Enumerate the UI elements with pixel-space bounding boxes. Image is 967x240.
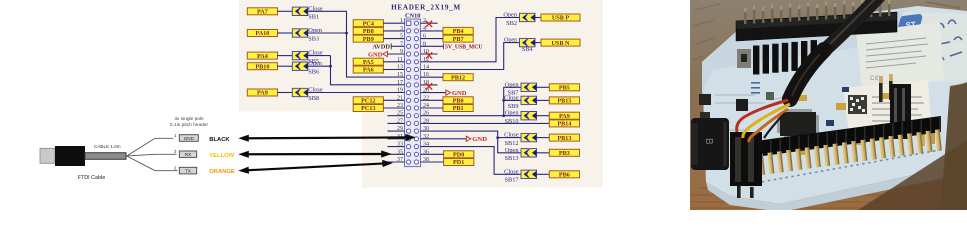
wire PA4 to SB5 [277,55,292,57]
svg-text:PB10: PB10 [255,63,269,70]
svg-text:0.1in pitch header: 0.1in pitch header [170,122,209,128]
node USB N [541,39,580,47]
node PA6 pin 13 [353,66,383,74]
node PC12 pin 21 [353,97,383,105]
solder bridge SB4 [520,38,536,46]
photo wood grain streaks [690,2,967,208]
FTDI wire to TX pin [127,156,178,171]
svg-text:27: 27 [397,118,403,124]
connector CN10 body [405,19,421,167]
svg-text:PA9: PA9 [559,113,570,120]
FTDI usb plug body [55,146,85,166]
node USB P [541,14,580,22]
wire SB10 to PA9 [537,115,550,117]
node PB15 [549,97,579,105]
svg-text:SB10: SB10 [505,118,519,125]
svg-text:PA9: PA9 [257,90,268,97]
svg-text:CABLE 1.0m: CABLE 1.0m [94,144,121,149]
svg-text:SB13: SB13 [505,155,519,162]
svg-text:35: 35 [397,149,403,155]
svg-text:HEADER_2X19_M: HEADER_2X19_M [391,4,461,12]
svg-text:PB1: PB1 [453,105,464,112]
wire SB13 to PB3 [537,152,550,154]
svg-text:PB7: PB7 [453,36,464,43]
svg-text:PA5: PA5 [363,59,374,66]
wire SB5 to bus [308,55,331,57]
svg-text:PB5: PB5 [559,85,570,92]
node PA7 [247,8,277,16]
svg-text:5V_USB_MCU: 5V_USB_MCU [445,45,483,51]
svg-text:3x single pole: 3x single pole [174,116,204,122]
node PB1 pin 24 [443,105,473,113]
label SB8 Close [308,87,323,102]
wire SB4 to USB N [535,42,541,44]
no-connect X pin 2 [426,21,432,27]
stub pin 10 [421,53,438,55]
svg-text:Close: Close [504,132,519,139]
svg-text:PA6: PA6 [363,67,374,74]
stub pin 33 [388,146,405,148]
wire PA7 to SB1 [277,10,292,12]
svg-text:SB1: SB1 [308,14,319,21]
wire SB8 to pin 19 [308,92,405,94]
node PA10 [247,30,277,38]
node PB12 pin 16 [443,74,473,82]
ground label pin 20 [446,90,467,97]
wire pin 32 stub [421,138,466,140]
photo wood table background [690,0,967,210]
stub pin 37 [388,161,405,163]
photo buttons [699,94,711,105]
label SB2 Open [503,12,517,27]
photo wood right dark edge [940,83,967,210]
wire pin 4 to PB4 [421,30,444,32]
solder bridge SB17 [521,170,537,178]
connector CN10 pin pads [406,21,418,164]
wire SB7 to PB5 [537,86,550,88]
svg-text:PB3: PB3 [559,150,570,157]
svg-text:29: 29 [397,126,403,132]
label SB7 Open [505,81,519,96]
FTDI RX connector [179,151,196,157]
solder bridge SB7 [521,83,537,91]
svg-text:TX: TX [185,169,191,174]
wire SB9 branch [504,99,521,101]
node PB9 pin 5 [353,35,383,43]
svg-text:PD0: PD0 [453,152,464,159]
node PB5 [549,84,579,92]
solder bridge SB8 [292,88,308,96]
svg-text:PA10: PA10 [255,30,269,37]
wire SB12 to PB13 [537,137,550,139]
wire pin 30 to SB12/SB13 bus [421,131,522,153]
svg-text:11: 11 [397,57,403,63]
photo standing pins pair [879,74,893,102]
node PC4 pin 1 [353,20,383,28]
svg-text:PB9: PB9 [363,36,374,43]
svg-text:PC13: PC13 [361,105,375,112]
wire pin 20 stub [421,92,446,94]
photo silkscreen text marks [751,82,760,94]
photo swd header [890,84,911,139]
photo colored wires [737,100,790,142]
wire pin 34 to SB17 [421,147,522,175]
svg-text:5: 5 [400,34,403,40]
node PD0 pin 36 [444,151,474,159]
photo top header pins [744,0,890,24]
svg-text:33: 33 [397,142,403,148]
wire GND to pin 9 [387,53,404,55]
label SB13 Open [505,147,520,162]
wire PB8 to pin 3 [383,30,404,32]
wire bus SB1/SB3 to pin 15 [347,11,405,77]
svg-text:Close: Close [504,168,519,175]
wire SB1 to bus [308,10,347,12]
photo bottom header pins [749,129,942,176]
photo black cable [792,0,881,95]
svg-text:3: 3 [400,26,403,32]
photo white sticker with code [843,80,932,142]
wire SB3 to bus [308,32,347,34]
no-connect X pin 10 [426,52,432,58]
svg-text:Cℭ: Cℭ [870,74,880,82]
svg-text:Close: Close [504,94,519,101]
pin numbers left column [397,18,403,163]
solder bridge SB9 [521,96,537,104]
wire SB12 branch [498,137,521,139]
annotation arrow TX/ORANGE to pin 37 [238,160,393,174]
svg-text:PB8: PB8 [363,28,374,35]
photo handwriting sticker [902,12,967,84]
stub pin 27 [388,122,405,124]
wire pin 8 to 5V_USB_MCU [421,45,444,47]
photo pcb board [702,6,967,204]
stub pin 25 [388,115,405,117]
wire SB6 to bus [308,65,331,67]
junction SB6 bus [329,65,332,68]
schematic page background [239,0,603,188]
svg-text:PB0: PB0 [453,98,464,105]
svg-text:PB4: PB4 [453,28,464,35]
label SB9 Close [504,94,519,109]
wire pin 14 to SB4 [421,43,520,70]
photo ST logo [897,14,922,35]
node PB14 [549,120,579,128]
net label 5V_USB_MCU pin 8 [444,43,484,50]
stub pin 31 [388,138,405,140]
label SB5 Close [308,50,323,65]
wire pin 6 to PB7 [421,38,444,40]
wire pin 38 to PD1 [421,161,444,163]
solder bridge SB13 [521,149,537,157]
wire SB17 to PB6 [537,173,550,175]
photo small components [798,93,889,155]
svg-text:19: 19 [397,88,403,94]
svg-text:GND: GND [452,90,467,97]
svg-text:BLACK: BLACK [209,137,230,143]
label 3x single pole header [170,116,209,128]
svg-text:USB N: USB N [551,40,570,47]
node PA4 [247,52,277,60]
svg-text:PB13: PB13 [557,135,571,142]
svg-text:RX: RX [185,152,191,157]
node PB8 pin 3 [353,27,383,35]
svg-text:13: 13 [397,65,403,71]
svg-text:SB3: SB3 [308,35,319,42]
svg-text:PB12: PB12 [451,74,465,81]
svg-text:9: 9 [400,49,403,55]
wire PB10 to SB6 [277,65,292,67]
label SB1 Close [308,5,323,20]
wire pin 24 to PB1 [421,107,444,109]
photo bottom header socket [748,116,941,158]
svg-text:ORANGE: ORANGE [209,169,235,175]
photo top pin header [736,12,897,41]
net label AVDD pin 7 [372,43,391,50]
svg-text:Open: Open [505,110,519,117]
solder bridge SB12 [521,133,537,141]
stub pin 18 [421,84,438,86]
node PB6 [549,171,579,179]
FTDI usb plug metal [40,148,55,163]
wire pin 26 to SB10 [421,115,522,117]
photo printed sticker [856,22,944,88]
svg-text:PB6: PB6 [559,172,570,179]
node PB4 pin 4 [443,27,473,35]
wire pin 16 to PB12 [421,76,444,78]
photo board traces [715,95,820,150]
label SB10 Open [505,110,520,125]
wire SB9 to PB15 [537,99,550,101]
svg-text:GND: GND [368,51,383,58]
node PC13 pin 23 [353,105,383,113]
photo mcu chip [777,109,819,139]
node PD1 pin 38 [444,159,474,167]
stub pin 29 [388,130,405,132]
annotation arrow RX/YELLOW to pin 35 [238,150,391,158]
svg-text:23: 23 [397,103,403,109]
wire AVDD to pin 7 [391,45,404,47]
svg-text:PA7: PA7 [257,9,268,16]
wire PA5 to pin 11 [383,61,404,63]
svg-text:PD1: PD1 [453,159,464,166]
svg-text:FTDI Cable: FTDI Cable [78,175,106,181]
svg-text:SB17: SB17 [505,177,519,184]
svg-text:SB4: SB4 [522,47,532,53]
solder bridge SB10 [521,112,537,120]
stub pin 2 [421,22,438,24]
photo left black header [730,132,762,186]
wire bus SB5/SB6 to pin 17 [331,56,405,85]
svg-text:Open: Open [505,81,519,88]
photo bottom silkscreen dashes [750,150,940,184]
photo usb plug [691,118,729,170]
svg-text:GND: GND [184,136,195,141]
svg-text:37: 37 [397,157,403,163]
wire pin 28 to PB14 [421,122,550,124]
wire PA6 to pin 13 [383,69,404,71]
node PA5 pin 11 [353,58,383,66]
svg-text:GND: GND [472,136,487,143]
wire pin 22 to PB0 [421,99,444,101]
node PA9 right [549,112,579,120]
node PB3 [549,149,579,157]
wire pin 36 to PD0 [421,153,444,155]
wire PC4 to pin 1 [383,22,404,24]
svg-text:17: 17 [397,80,403,86]
solder bridge SB2 [520,13,536,21]
svg-text:USB P: USB P [552,15,570,22]
wire PC12 to pin 21 [383,99,404,101]
wire PA10 to SB3 [277,32,292,34]
svg-text:PB14: PB14 [557,121,571,128]
label SB3 Open [308,27,322,42]
junction pin 26 bus [502,114,505,117]
wire bus SB7/SB9 [504,87,521,115]
svg-text:AVDD: AVDD [372,44,390,51]
wire pin 12 to SB2 [421,18,520,62]
svg-text:7: 7 [400,41,403,47]
FTDI wire to GND pin [127,138,174,156]
FTDI wire to RX pin [127,154,177,156]
ground label pin 32 [466,136,487,143]
FTDI cable sleeve [85,153,126,160]
solder bridge SB1 [292,7,308,15]
photo silver switch [737,49,751,68]
junction SB9 [502,99,505,102]
photo jumper block [753,40,817,74]
svg-text:PC12: PC12 [361,98,375,105]
pin numbers right column [423,18,429,163]
svg-text:YELLOW: YELLOW [209,153,234,159]
svg-text:21: 21 [397,95,403,101]
node PB7 pin 6 [443,35,473,43]
svg-text:25: 25 [397,111,403,117]
svg-text:SB8: SB8 [308,95,319,102]
svg-text:1: 1 [400,18,403,24]
FTDI TX connector [179,167,196,174]
label SB17 Close [504,168,519,183]
ground label pin 9 [368,51,387,58]
node PA9 left [247,89,277,97]
solder bridge SB6 [292,62,308,70]
solder bridge SB5 [292,51,308,59]
svg-text:SB2: SB2 [506,20,517,27]
solder bridge SB3 [292,29,308,37]
svg-text:PC4: PC4 [363,20,374,27]
junction SB3 bus [345,32,348,35]
svg-text:B: B [703,138,714,145]
annotation arrow GND/BLACK to pin 31 [238,134,415,142]
label SB6 Open [308,60,322,75]
svg-text:SB6: SB6 [308,69,319,76]
FTDI GND connector [179,135,198,142]
wire PA9 to SB8 [277,92,292,94]
svg-text:Open: Open [504,37,517,43]
ftdi drawing white background [0,112,123,211]
svg-text:PA4: PA4 [257,53,268,60]
node PB13 [549,134,579,142]
label SB12 Close [504,132,519,147]
label SB4 Open [504,37,532,52]
node PB0 pin 22 [443,97,473,105]
wire PC13 to pin 23 [383,107,404,109]
wire PB9 to pin 5 [383,38,404,40]
svg-text:15: 15 [397,72,403,78]
no-connect X pin 18 [426,83,432,89]
stub pin 35 [388,153,405,155]
svg-text:Open: Open [505,147,519,154]
wire SB2 to USB P [535,17,541,19]
junction SB12 [496,136,499,139]
node PB10 [247,63,277,71]
svg-text:PB15: PB15 [557,98,571,105]
svg-text:Open: Open [503,12,517,19]
